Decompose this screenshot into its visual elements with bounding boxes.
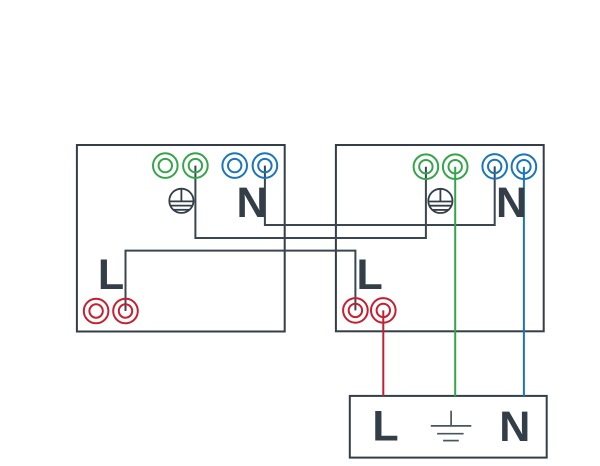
svg-text:L: L [98, 251, 124, 299]
svg-text:L: L [357, 251, 383, 299]
svg-text:L: L [372, 403, 398, 451]
svg-text:N: N [499, 403, 530, 451]
svg-text:N: N [496, 179, 527, 227]
svg-text:N: N [237, 179, 268, 227]
